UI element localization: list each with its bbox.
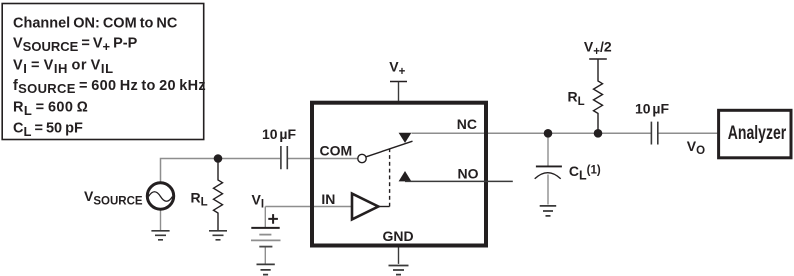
node VO label [687, 138, 705, 157]
power V+/2 rail bar [589, 58, 607, 60]
resistor RL (right) [594, 59, 603, 133]
power V+ rail bar [390, 81, 407, 83]
svg-text:VSOURCE = V+ P-P: VSOURCE = V+ P-P [13, 35, 138, 53]
junction node (COM / RL) [214, 154, 223, 163]
svg-text:NC: NC [457, 116, 477, 132]
NO contact triangle [399, 171, 412, 181]
NC contact triangle [399, 133, 412, 143]
switch IC box U1 [312, 103, 486, 246]
label 10uF (input) [262, 126, 296, 142]
svg-text:CL = 50 pF: CL = 50 pF [13, 121, 83, 139]
wire source lower lead to ground [160, 210, 162, 231]
buffer output line [378, 206, 389, 208]
pin IN label [321, 191, 335, 207]
wire battery verticals [264, 207, 266, 264]
svg-text:IN: IN [321, 191, 335, 207]
label VSOURCE [84, 188, 143, 207]
switch pole circle [358, 154, 366, 162]
svg-text:VI = VIH or VIL: VI = VIH or VIL [13, 58, 114, 76]
wire GND lead [398, 248, 400, 264]
note line 2: VSOURCE = V+ P-P [13, 35, 138, 53]
svg-text:RL = 600 Ω: RL = 600 Ω [13, 100, 88, 118]
wire CL leads [547, 133, 549, 204]
note line 6: CL = 50 pF [13, 121, 83, 139]
ground (below battery) [257, 264, 275, 274]
switch lever [366, 141, 412, 157]
svg-text:fSOURCE = 600 Hz to 20 kHz: fSOURCE = 600 Hz to 20 kHz [13, 78, 206, 96]
svg-text:COM: COM [320, 142, 353, 158]
voltage source VSOURCE circle with sine [147, 183, 173, 209]
pin COM label [320, 142, 353, 158]
ground (below left RL) [209, 231, 227, 240]
label 10uF (output) [635, 100, 669, 116]
label CL(1) [569, 163, 601, 182]
wire IN net: from VI corner into box to buffer [265, 206, 351, 208]
note line 1: Channel ON: COM to NC [13, 16, 178, 32]
pin NC label [457, 116, 477, 132]
battery VI plates [251, 228, 281, 247]
svg-text:10µF: 10µF [262, 126, 296, 142]
ground (below box GND) [389, 266, 409, 275]
resistor RL (left) [214, 159, 223, 231]
label VI [252, 191, 265, 210]
input buffer driver [352, 194, 378, 220]
wire V+ lead into box [398, 82, 400, 102]
wire NO stub [405, 180, 513, 182]
pin GND label [383, 228, 414, 244]
conditions note box [2, 4, 204, 140]
dashed control line [389, 149, 391, 207]
capacitor CL plates [535, 166, 562, 178]
capacitor 10uF (output) [651, 122, 657, 145]
power V+ label [389, 59, 405, 78]
note line 4: fSOURCE = 600 Hz to 20 kHz [13, 78, 206, 96]
svg-text:Analyzer: Analyzer [728, 122, 787, 144]
ground (below VSOURCE) [151, 231, 169, 240]
junction node (NC / CL) [544, 129, 553, 138]
wire NC net: from NC contact through junctions to output cap and analyzer [412, 132, 718, 134]
svg-text:10µF: 10µF [635, 100, 669, 116]
capacitor 10uF (input) [281, 146, 287, 169]
label RL (right) [568, 89, 585, 108]
wire COM net: source riser and horizontal to input cap [161, 159, 358, 183]
note line 3: VI = VIH or VIL [13, 58, 114, 76]
power V+/2 label [584, 39, 612, 58]
label RL (left) [191, 190, 208, 209]
svg-text:GND: GND [383, 228, 414, 244]
battery VI plus sign [268, 214, 278, 224]
note line 5: RL = 600 ohm [13, 100, 88, 118]
ground (below CL) [540, 206, 557, 216]
analyzer box [719, 110, 791, 158]
svg-text:Channel ON: COM to NC: Channel ON: COM to NC [13, 16, 178, 32]
junction node (NC / right RL) [594, 129, 603, 138]
pin NO label [458, 165, 479, 181]
svg-text:NO: NO [458, 165, 479, 181]
